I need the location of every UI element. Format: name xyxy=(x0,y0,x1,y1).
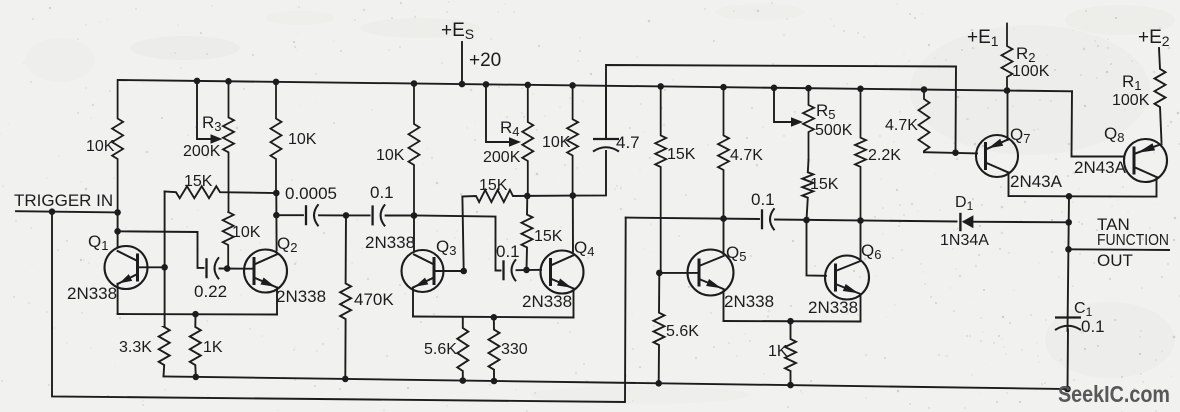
junction dot Q5 collector xyxy=(720,215,727,222)
transistor Q2 xyxy=(244,250,287,293)
label 15K below R5 xyxy=(810,176,839,193)
wire Q2 emitter xyxy=(276,288,278,315)
resistor 5.6K second xyxy=(654,273,665,383)
label 10K Q4 load xyxy=(542,134,571,151)
svg-text:100K: 100K xyxy=(1112,92,1150,109)
wire 0.1 to Q3 collector xyxy=(386,215,414,217)
svg-text:15K: 15K xyxy=(667,146,696,163)
resistor R3 200K xyxy=(223,81,234,212)
resistor 10K Q2 load xyxy=(271,82,282,193)
label 2N43A Q8 xyxy=(1074,158,1127,177)
resistor R1 100K xyxy=(1155,48,1166,142)
wire Q7 collector xyxy=(1009,173,1070,197)
label Q7 xyxy=(1010,125,1030,146)
resistor 3.3K xyxy=(159,327,170,376)
wire Q3 emitter xyxy=(412,288,414,317)
diode D1 triangle xyxy=(962,215,974,228)
wire emitter bus Q3 Q4 xyxy=(413,317,574,318)
junction dot 470K top xyxy=(343,212,350,219)
wire Q2 collector xyxy=(275,193,277,251)
arrow R5 wiper xyxy=(791,117,803,127)
junction dot 1K top xyxy=(192,311,199,318)
label 2.2K xyxy=(868,147,901,164)
svg-text:0.1: 0.1 xyxy=(370,183,394,202)
wire Q1 base vertical xyxy=(164,192,166,328)
wire Q4 emitter xyxy=(573,289,575,318)
svg-text:15K: 15K xyxy=(184,173,213,190)
wire Q6 base drop xyxy=(807,220,827,276)
junction dot trigger feedback xyxy=(49,208,56,215)
label FUNCTION xyxy=(1097,232,1169,249)
svg-text:10K: 10K xyxy=(86,138,115,155)
label R4 xyxy=(500,118,520,139)
wire D1 line right xyxy=(964,221,1069,224)
label 470K xyxy=(354,290,394,309)
diode D1 bar xyxy=(959,214,961,230)
wire R4 wiper xyxy=(486,84,510,142)
svg-text:2.2K: 2.2K xyxy=(868,147,901,164)
wire emitter bus Q5 Q6 xyxy=(724,320,861,323)
wire main supply rail xyxy=(118,80,1072,91)
transistor Q1 xyxy=(105,246,148,289)
label 200K R4 xyxy=(483,149,521,166)
junction dot Q7 base xyxy=(952,149,959,156)
junction dot 330 bottom xyxy=(491,378,498,385)
wire coupling jog to Q4 xyxy=(414,216,501,271)
label 15K left xyxy=(184,173,213,190)
junction dot Q6 base node xyxy=(803,217,810,224)
transistor Q3 xyxy=(402,250,444,292)
label 200K R3 xyxy=(183,143,221,160)
label 4.7K Q5 xyxy=(730,147,763,164)
junction dot Q4 collector node xyxy=(570,192,577,199)
junction dot 10K Q3 top xyxy=(411,80,418,87)
label 15K Q4 base xyxy=(534,228,563,245)
svg-text:5.6K: 5.6K xyxy=(666,323,699,340)
junction dot 15K Q5 top xyxy=(657,83,664,90)
label 0.1 first xyxy=(370,183,394,202)
junction dot 10K Q2 load top xyxy=(273,79,280,86)
label Q5 xyxy=(726,243,746,264)
label +20 xyxy=(469,50,501,71)
wire output vertical xyxy=(1068,196,1070,331)
junction dot 1K2 top xyxy=(787,318,794,325)
wire 4.7 bottom xyxy=(573,151,606,196)
junction dot 5.6K bottom xyxy=(460,377,467,384)
wire Q1 base xyxy=(137,266,165,268)
wire rail right corner to Q8 base xyxy=(1072,91,1125,156)
label Q2 xyxy=(277,234,297,255)
resistor 15K cross-coupling right xyxy=(462,190,572,202)
junction dot 2.2K top xyxy=(857,86,864,93)
junction dot R5 wiper rail xyxy=(771,85,778,92)
svg-text:2N338: 2N338 xyxy=(724,292,774,311)
label 15K Q5 xyxy=(667,146,696,163)
junction dot D1 out xyxy=(1065,219,1072,226)
wire out line xyxy=(1069,248,1170,251)
label 5.6K first xyxy=(424,341,457,358)
wire trigger input xyxy=(16,211,118,212)
resistor 15K below R5 xyxy=(802,160,813,220)
transistor Q4 xyxy=(541,251,584,294)
wire Q3 base xyxy=(434,270,464,272)
svg-text:470K: 470K xyxy=(354,290,394,309)
junction dot R5 top xyxy=(805,85,812,92)
wire Q3 base vertical xyxy=(462,197,463,272)
junction dot 5.6K second bottom xyxy=(655,380,662,387)
label 5.6K second xyxy=(666,323,699,340)
wire bottom bus xyxy=(164,376,1068,389)
junction dot Q2 base xyxy=(224,265,231,272)
junction dot Q1 base xyxy=(161,264,168,271)
junction dot Q4 base xyxy=(523,267,530,274)
wire D1 line left xyxy=(626,218,759,219)
label 500K xyxy=(815,122,853,139)
wire R5 wiper xyxy=(774,88,792,122)
junction dot trigger at 10K xyxy=(114,209,121,216)
label D1 xyxy=(955,194,974,213)
junction dot R4 wiper rail xyxy=(483,81,490,88)
capacitor 0.1 Q5 Q6 xyxy=(762,208,775,230)
svg-text:10K: 10K xyxy=(232,224,261,241)
label 0.1 Q4 xyxy=(496,242,520,261)
arrow R4 wiper xyxy=(509,137,521,147)
svg-text:2N338: 2N338 xyxy=(365,233,415,252)
transistor Q8 xyxy=(1124,139,1167,182)
resistor 10K left xyxy=(112,80,123,212)
capacitor 4.7 xyxy=(593,139,619,152)
wire Q2 base inner xyxy=(245,268,255,270)
svg-text:0.0005: 0.0005 xyxy=(285,184,337,203)
junction dot 470K bottom xyxy=(342,376,349,383)
junction dot Q3 collector node xyxy=(411,212,418,219)
svg-text:15K: 15K xyxy=(479,177,508,194)
svg-text:1N34A: 1N34A xyxy=(940,232,989,249)
transistor Q6 xyxy=(825,256,869,300)
label 4.7K Q7 xyxy=(885,117,918,134)
svg-text:15K: 15K xyxy=(810,176,839,193)
resistor R2 100K xyxy=(1002,24,1013,91)
resistor 4.7K Q7 xyxy=(919,90,930,153)
wire 4.7 top xyxy=(605,86,607,138)
watermark SeekIC.com xyxy=(1058,381,1170,407)
wire Q5 collector xyxy=(723,219,725,254)
wire Q1 emitter xyxy=(117,284,119,314)
svg-text:2N338: 2N338 xyxy=(522,292,572,311)
capacitor 0.1 first xyxy=(373,204,386,226)
svg-text:10K: 10K xyxy=(542,134,571,151)
label +E1 xyxy=(967,27,999,49)
junction dot 4.7K Q5 top xyxy=(720,84,727,91)
label Q1 xyxy=(88,232,108,253)
wire Q3 collector xyxy=(413,216,415,251)
junction dot R3 top xyxy=(225,78,232,85)
svg-text:200K: 200K xyxy=(483,149,521,166)
junction dot R4 chain at 15K xyxy=(524,193,531,200)
label 0.1 Q5Q6 xyxy=(751,190,775,209)
label 100K R2 xyxy=(1012,63,1050,80)
label +ES xyxy=(441,20,474,42)
resistor 10K Q4 load xyxy=(567,85,578,195)
transistor Q7 xyxy=(976,135,1018,177)
resistor 10K Q3 load xyxy=(409,84,420,216)
resistor 1K second xyxy=(785,321,796,385)
label R1 xyxy=(1122,72,1142,93)
resistor R4 200K xyxy=(522,85,533,196)
svg-text:+20: +20 xyxy=(469,50,501,71)
wire 0.1 left xyxy=(346,214,370,216)
svg-text:100K: 100K xyxy=(1012,63,1050,80)
wire emitter bus Q1 Q2 xyxy=(118,313,277,316)
node +ES supply stub xyxy=(461,42,463,84)
label 10K left xyxy=(86,138,115,155)
svg-text:1K: 1K xyxy=(768,343,788,360)
label 10K below R3 xyxy=(232,224,261,241)
svg-text:0.22: 0.22 xyxy=(194,282,227,301)
resistor 330 xyxy=(489,317,500,381)
capacitor C1 xyxy=(1055,318,1081,331)
junction dot 1K bottom xyxy=(193,374,200,381)
svg-text:2N338: 2N338 xyxy=(808,298,858,317)
label 0.1 C1 xyxy=(1081,317,1105,336)
label R2 xyxy=(1016,44,1036,65)
resistor 15K Q5 xyxy=(655,86,666,273)
label 2N43A Q7 xyxy=(1010,172,1063,191)
label R5 xyxy=(816,101,836,122)
wire Q7 emitter xyxy=(1007,91,1009,141)
resistor 10K below R3 xyxy=(223,212,234,269)
label Q6 xyxy=(861,241,881,262)
label 3.3K xyxy=(119,339,152,356)
label +E2 xyxy=(1138,27,1170,49)
label 2N338 Q6 xyxy=(808,298,858,317)
capacitor 0.1 Q4 base xyxy=(504,259,517,281)
label 330 xyxy=(501,341,528,358)
junction dot 0.0005 left xyxy=(273,212,280,219)
svg-text:TRIGGER IN: TRIGGER IN xyxy=(14,191,113,210)
svg-text:5.6K: 5.6K xyxy=(424,341,457,358)
junction dot Q5 base xyxy=(656,270,663,277)
resistor 5.6K first xyxy=(457,317,468,381)
svg-text:10K: 10K xyxy=(288,131,317,148)
wire 0.22 to Q2 base xyxy=(220,268,245,270)
label 10K Q3 load xyxy=(376,147,405,164)
wire Q8 collector xyxy=(1069,177,1157,197)
svg-text:330: 330 xyxy=(501,341,528,358)
wire Q5 base xyxy=(659,272,698,274)
label 1K second xyxy=(768,343,788,360)
wire 0.1 to Q4 base xyxy=(517,269,542,271)
svg-text:2N338: 2N338 xyxy=(276,287,326,306)
svg-text:FUNCTION: FUNCTION xyxy=(1097,232,1169,249)
resistor 15K to Q4 base xyxy=(522,196,533,270)
svg-text:0.1: 0.1 xyxy=(751,190,775,209)
resistor R5 500K xyxy=(803,88,814,160)
svg-text:4.7: 4.7 xyxy=(616,133,640,152)
label R3 xyxy=(202,113,222,134)
junction dot 330 top xyxy=(491,314,498,321)
svg-text:200K: 200K xyxy=(183,143,221,160)
svg-text:1K: 1K xyxy=(203,339,223,356)
junction dot +ES on rail xyxy=(459,81,466,88)
label 2N338 Q5 xyxy=(724,292,774,311)
wire feedback left-bottom xyxy=(52,212,626,402)
wire Q4 collector xyxy=(572,196,574,252)
wire D1 line mid xyxy=(775,220,957,222)
label 4.7 xyxy=(616,133,640,152)
label 0.22 xyxy=(194,282,227,301)
wire Q1 collector line xyxy=(117,212,119,247)
label 15K right cross xyxy=(479,177,508,194)
label Q3 xyxy=(436,237,456,258)
wire Q1 collector to 0.22 xyxy=(118,231,204,268)
junction dot Q3 base xyxy=(460,268,467,275)
junction dot collector join xyxy=(1066,193,1073,200)
junction dot 10K Q4 top xyxy=(569,82,576,89)
svg-text:2N43A: 2N43A xyxy=(1010,172,1063,191)
resistor 15K cross-coupling left xyxy=(165,186,277,198)
capacitor 0.0005 xyxy=(306,204,319,226)
label 2N338 Q2 xyxy=(276,287,326,306)
svg-text:SeekIC.com: SeekIC.com xyxy=(1058,381,1170,407)
resistor 2.2K xyxy=(855,89,866,221)
junction dot Q6 collector xyxy=(857,217,864,224)
label 1K xyxy=(203,339,223,356)
label 0.0005 xyxy=(285,184,337,203)
svg-text:500K: 500K xyxy=(815,122,853,139)
resistor 470K xyxy=(340,215,351,379)
label 2N338 Q1 xyxy=(67,284,117,303)
svg-text:15K: 15K xyxy=(534,228,563,245)
wire Q5 emitter xyxy=(723,291,725,322)
wire Q6 collector xyxy=(860,221,862,260)
svg-text:4.7K: 4.7K xyxy=(885,117,918,134)
resistor 1K xyxy=(190,314,201,377)
wire upper rail to Q7 base xyxy=(606,65,956,153)
junction dot Q1 collector xyxy=(114,228,121,235)
label TRIGGER IN xyxy=(14,191,113,210)
wire 0.0005 left xyxy=(276,214,303,216)
wire 0.0005 to 470K xyxy=(319,214,346,216)
svg-text:0.1: 0.1 xyxy=(1081,317,1105,336)
label TAN xyxy=(1097,215,1130,234)
svg-text:2N43A: 2N43A xyxy=(1074,158,1127,177)
svg-text:2N338: 2N338 xyxy=(67,284,117,303)
wire Q7 base xyxy=(924,152,977,153)
label 100K R1 xyxy=(1112,92,1150,109)
transistor Q5 xyxy=(688,250,734,296)
junction dot 15K right xyxy=(273,190,280,197)
label Q8 xyxy=(1104,124,1124,145)
svg-text:0.1: 0.1 xyxy=(496,242,520,261)
svg-text:3.3K: 3.3K xyxy=(119,339,152,356)
junction dot 1K2 bottom xyxy=(787,382,794,389)
capacitor 0.22 xyxy=(207,257,220,279)
label 10K Q2 load xyxy=(288,131,317,148)
svg-text:10K: 10K xyxy=(376,147,405,164)
wire Q6 emitter xyxy=(860,296,862,322)
resistor 4.7K Q5 xyxy=(718,87,729,218)
junction dot 4.7K Q7 top xyxy=(921,86,928,93)
label 2N338 Q3 xyxy=(365,233,415,252)
svg-text:OUT: OUT xyxy=(1097,251,1133,270)
junction dot R2 bottom xyxy=(1004,87,1011,94)
label 1N34A xyxy=(940,232,989,249)
svg-text:4.7K: 4.7K xyxy=(730,147,763,164)
arrow R3 wiper xyxy=(211,134,223,144)
junction dot C1 bottom xyxy=(1064,386,1071,393)
label C1 xyxy=(1074,300,1093,319)
wire C1 bottom xyxy=(1067,330,1070,390)
junction dot rail R3 wiper xyxy=(194,78,201,85)
label OUT xyxy=(1097,251,1133,270)
junction dot R4 top xyxy=(525,82,532,89)
label 2N338 Q4 xyxy=(522,292,572,311)
junction dot out line xyxy=(1065,246,1072,253)
label Q4 xyxy=(574,238,594,259)
wire R3 wiper xyxy=(197,81,212,139)
